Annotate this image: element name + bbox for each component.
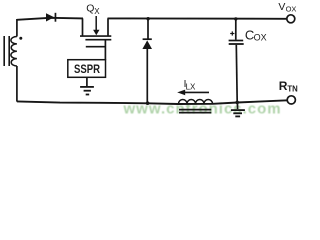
svg-text:LX: LX	[186, 82, 196, 91]
svg-text:X: X	[94, 7, 100, 16]
svg-text:TN: TN	[287, 84, 298, 93]
svg-text:SSPR: SSPR	[74, 64, 101, 76]
svg-text:OX: OX	[254, 32, 267, 42]
svg-text:OX: OX	[286, 5, 297, 14]
svg-text:Q: Q	[86, 3, 94, 15]
svg-text:V: V	[278, 1, 285, 13]
